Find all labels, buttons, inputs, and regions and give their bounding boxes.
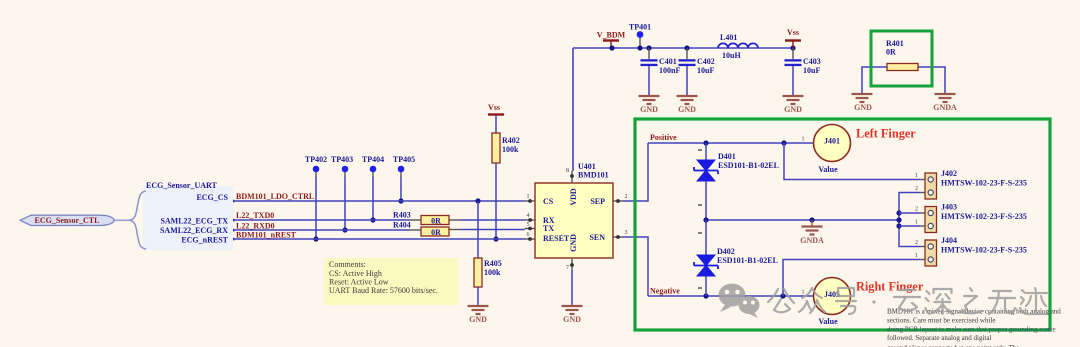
testpoint TP402 <box>305 155 327 242</box>
svg-text:1: 1 <box>915 253 918 259</box>
watermark chinese text <box>768 288 1047 314</box>
node label SAML22_ECG_TX <box>160 217 228 226</box>
svg-text:D402: D402 <box>717 247 735 256</box>
svg-text:CS: CS <box>543 197 554 206</box>
svg-text:GND: GND <box>640 105 658 114</box>
svg-text:0R: 0R <box>431 217 441 226</box>
svg-text:UART Baud Rate: 57600 bits/se: UART Baud Rate: 57600 bits/sec. <box>329 286 438 295</box>
op-amp U401 BMD101 body <box>535 162 613 258</box>
pin 2 SEP <box>613 194 628 203</box>
svg-text:GND: GND <box>854 103 872 112</box>
char wu <box>989 291 1015 314</box>
ground GNDA mid <box>800 220 824 245</box>
svg-text:SEN: SEN <box>589 233 605 242</box>
harness brace <box>129 191 146 249</box>
power port Vss top <box>785 28 801 48</box>
svg-text:2: 2 <box>625 194 628 200</box>
header J402 <box>915 169 1027 199</box>
middot <box>872 300 875 303</box>
pin 6 RESET <box>525 232 535 241</box>
svg-text:TP402: TP402 <box>305 155 327 164</box>
power port Vss above R402 <box>488 103 504 133</box>
svg-text:J401: J401 <box>824 137 840 146</box>
pin 8 VDD <box>566 168 574 183</box>
svg-text:1: 1 <box>527 194 530 200</box>
resistor R402 <box>492 133 520 163</box>
harness wire <box>115 219 129 221</box>
char zhi <box>960 288 983 313</box>
svg-text:HMTSW-102-23-F-S-235: HMTSW-102-23-F-S-235 <box>941 246 1027 255</box>
svg-text:Vss: Vss <box>488 103 500 112</box>
svg-text:GND: GND <box>569 234 578 252</box>
green highlight box around finger section <box>635 119 1050 330</box>
node label ECG_Sensor_UART <box>146 181 218 190</box>
net label L22_RXD0 <box>236 222 275 231</box>
svg-text:GNDA: GNDA <box>800 236 824 245</box>
ground GND under C402 <box>677 96 698 114</box>
svg-text:Value: Value <box>818 165 838 174</box>
diode D401 ESD101-B1-02EL <box>694 143 779 220</box>
svg-text:RESET: RESET <box>543 234 570 243</box>
ground GND under R401 left <box>852 94 873 112</box>
svg-text:Positive: Positive <box>650 133 677 142</box>
svg-text:C401: C401 <box>659 57 677 66</box>
testpoint TP405 <box>393 155 415 204</box>
svg-text:TX: TX <box>543 224 554 233</box>
capacitor C401 <box>641 48 681 95</box>
svg-text:R404: R404 <box>393 221 411 230</box>
svg-text:1: 1 <box>915 220 918 226</box>
pin 1 CS <box>525 194 535 203</box>
wire Positive rail <box>648 140 813 145</box>
svg-text:C403: C403 <box>803 57 821 66</box>
svg-text:doing PCB layout to make sure: doing PCB layout to make sure that prope… <box>887 326 1056 334</box>
label Left Finger <box>856 127 916 141</box>
svg-text:6: 6 <box>527 232 530 238</box>
wire CS line <box>232 198 525 203</box>
ground GND under R405 <box>468 306 489 324</box>
svg-text:D401: D401 <box>718 152 736 161</box>
wire TXD0 line <box>232 219 525 222</box>
pin 4 RX <box>525 213 535 222</box>
node label ECG_CS <box>196 193 228 202</box>
ground GND under C401 <box>639 96 660 114</box>
pin 5 TX <box>525 222 535 230</box>
svg-text:GND: GND <box>563 315 581 324</box>
svg-text:7: 7 <box>566 265 569 271</box>
char ji <box>1020 288 1047 314</box>
junction dots top rail <box>609 45 795 50</box>
svg-text:3: 3 <box>625 230 628 236</box>
wire GNDA mid rail <box>703 217 899 222</box>
net label Negative <box>650 287 680 296</box>
resistor R403 <box>393 211 449 226</box>
svg-text:GND: GND <box>678 105 696 114</box>
svg-text:ECG_nREST: ECG_nREST <box>181 236 228 245</box>
wire SEP to Positive rail <box>623 143 648 201</box>
svg-text:ESD101-B1-02EL: ESD101-B1-02EL <box>718 161 779 170</box>
svg-text:HMTSW-102-23-F-S-235: HMTSW-102-23-F-S-235 <box>941 212 1027 221</box>
svg-text:R403: R403 <box>393 211 411 220</box>
char shen <box>926 289 953 314</box>
svg-text:2: 2 <box>915 240 918 246</box>
svg-text:followed. Separate analog and: followed. Separate analog and digital <box>887 334 991 342</box>
connector J401 Left Finger <box>802 125 851 175</box>
node label SAML22_ECG_RX <box>160 226 228 235</box>
resistor R401 <box>886 39 918 71</box>
ground GND under U401 <box>562 306 583 324</box>
svg-text:Vss: Vss <box>787 28 799 37</box>
ground GNDA under R401 right <box>933 94 957 112</box>
capacitor C402 <box>679 48 715 95</box>
svg-text:SAML22_ECG_TX: SAML22_ECG_TX <box>160 217 228 226</box>
svg-text:sections. Care must be exercis: sections. Care must be exercised while <box>887 317 995 325</box>
svg-text:V_BDM: V_BDM <box>597 31 626 40</box>
green highlight box around R401 <box>871 31 932 86</box>
svg-text:Left Finger: Left Finger <box>856 127 916 141</box>
svg-text:1: 1 <box>802 290 805 296</box>
net label Positive <box>650 133 677 142</box>
svg-text:BDM101_nREST: BDM101_nREST <box>236 231 297 240</box>
svg-text:5: 5 <box>527 222 530 228</box>
svg-text:GNDA: GNDA <box>933 103 957 112</box>
wire VDD feed vertical <box>572 48 574 171</box>
pin 3 SEN <box>613 230 628 239</box>
inductor L401 <box>718 33 758 60</box>
svg-text:BDM101_LDO_CTRL: BDM101_LDO_CTRL <box>236 192 314 201</box>
svg-text:2: 2 <box>915 186 918 192</box>
svg-text:TP401: TP401 <box>629 23 651 32</box>
connector J405 Right Finger <box>802 278 851 327</box>
header J404 <box>915 236 1027 266</box>
svg-text:TP405: TP405 <box>393 155 415 164</box>
svg-text:10uF: 10uF <box>803 66 820 75</box>
svg-text:L22_RXD0: L22_RXD0 <box>236 222 275 231</box>
svg-text:R402: R402 <box>502 136 520 145</box>
svg-text:ECG_Sensor_CTL: ECG_Sensor_CTL <box>35 216 100 225</box>
testpoint TP403 <box>331 155 353 233</box>
svg-text:8: 8 <box>566 168 569 174</box>
net label L22_TXD0 <box>236 211 274 220</box>
svg-text:100nF: 100nF <box>659 66 680 75</box>
wire R402 to nREST <box>493 163 498 242</box>
svg-text:0R: 0R <box>431 228 441 237</box>
wire J402 pin2 to bus column <box>896 193 920 247</box>
ground GND under C403 <box>783 96 804 114</box>
svg-text:4: 4 <box>527 213 530 219</box>
svg-text:J402: J402 <box>941 169 957 178</box>
svg-text:SAML22_ECG_RX: SAML22_ECG_RX <box>160 226 228 235</box>
wire J403 stubs <box>899 213 920 226</box>
svg-text:TP403: TP403 <box>331 155 353 164</box>
wire R401 left <box>862 67 887 93</box>
note text block bottom right <box>887 308 1061 347</box>
svg-text:10uF: 10uF <box>697 66 714 75</box>
label Right Finger <box>856 280 924 294</box>
harness shade <box>143 186 233 250</box>
svg-text:GND: GND <box>469 315 487 324</box>
svg-text:0R: 0R <box>886 48 896 57</box>
svg-text:VDD: VDD <box>569 188 578 206</box>
svg-text:100k: 100k <box>502 145 519 154</box>
node label ECG_nREST <box>181 236 228 245</box>
pin 7 GND <box>566 258 574 305</box>
svg-text:Right Finger: Right Finger <box>856 280 924 294</box>
wire J401 branch to J402 pin1 <box>784 143 920 180</box>
watermark wechat icon <box>719 284 760 319</box>
wire nREST line <box>232 238 525 241</box>
svg-text:TP404: TP404 <box>362 155 384 164</box>
svg-text:HMTSW-102-23-F-S-235: HMTSW-102-23-F-S-235 <box>941 179 1027 188</box>
char zhong <box>799 288 825 313</box>
capacitor C403 <box>785 48 821 95</box>
svg-text:BMD101: BMD101 <box>578 171 609 180</box>
svg-text:SEP: SEP <box>590 197 605 206</box>
svg-text:1: 1 <box>915 173 918 179</box>
svg-text:ECG_CS: ECG_CS <box>196 193 228 202</box>
wire RXD0 line <box>232 229 525 232</box>
svg-text:Value: Value <box>818 317 838 326</box>
svg-text:10uH: 10uH <box>722 51 741 60</box>
power port V_BDM <box>597 31 626 49</box>
svg-text:J404: J404 <box>941 236 957 245</box>
svg-text:ESD101-B1-02EL: ESD101-B1-02EL <box>717 256 778 265</box>
svg-text:1: 1 <box>802 137 805 143</box>
char gong <box>768 289 794 312</box>
wire SEN to Negative rail <box>623 237 648 296</box>
comment box <box>324 258 458 305</box>
net label BDM101_nREST <box>236 231 297 240</box>
header J403 <box>915 203 1027 233</box>
wire Negative rail <box>648 293 813 298</box>
svg-text:ECG_Sensor_UART: ECG_Sensor_UART <box>146 181 218 190</box>
wire J404 pin1 to Negative rail <box>783 260 920 297</box>
harness connector ECG_Sensor_CTL <box>20 215 115 225</box>
svg-text:100k: 100k <box>484 268 501 277</box>
diode D402 ESD101-B1-02EL <box>694 220 778 296</box>
wire V_BDM top rail <box>573 47 793 49</box>
svg-text:J403: J403 <box>941 203 957 212</box>
svg-text:C402: C402 <box>697 57 715 66</box>
svg-text:R405: R405 <box>484 259 502 268</box>
resistor R405 <box>474 201 502 305</box>
testpoint TP404 <box>362 155 384 223</box>
char hao <box>836 288 856 314</box>
svg-text:L22_TXD0: L22_TXD0 <box>236 211 274 220</box>
testpoint TP401 <box>629 23 651 49</box>
resistor R404 <box>393 221 449 238</box>
char yun <box>894 290 920 311</box>
svg-text:Negative: Negative <box>650 287 680 296</box>
wire R401 right <box>918 67 945 93</box>
svg-text:Comments:: Comments: <box>329 260 366 269</box>
svg-text:2: 2 <box>915 207 918 213</box>
svg-text:L401: L401 <box>720 33 737 42</box>
svg-text:GND: GND <box>784 105 802 114</box>
net label BDM101_LDO_CTRL <box>236 192 314 201</box>
